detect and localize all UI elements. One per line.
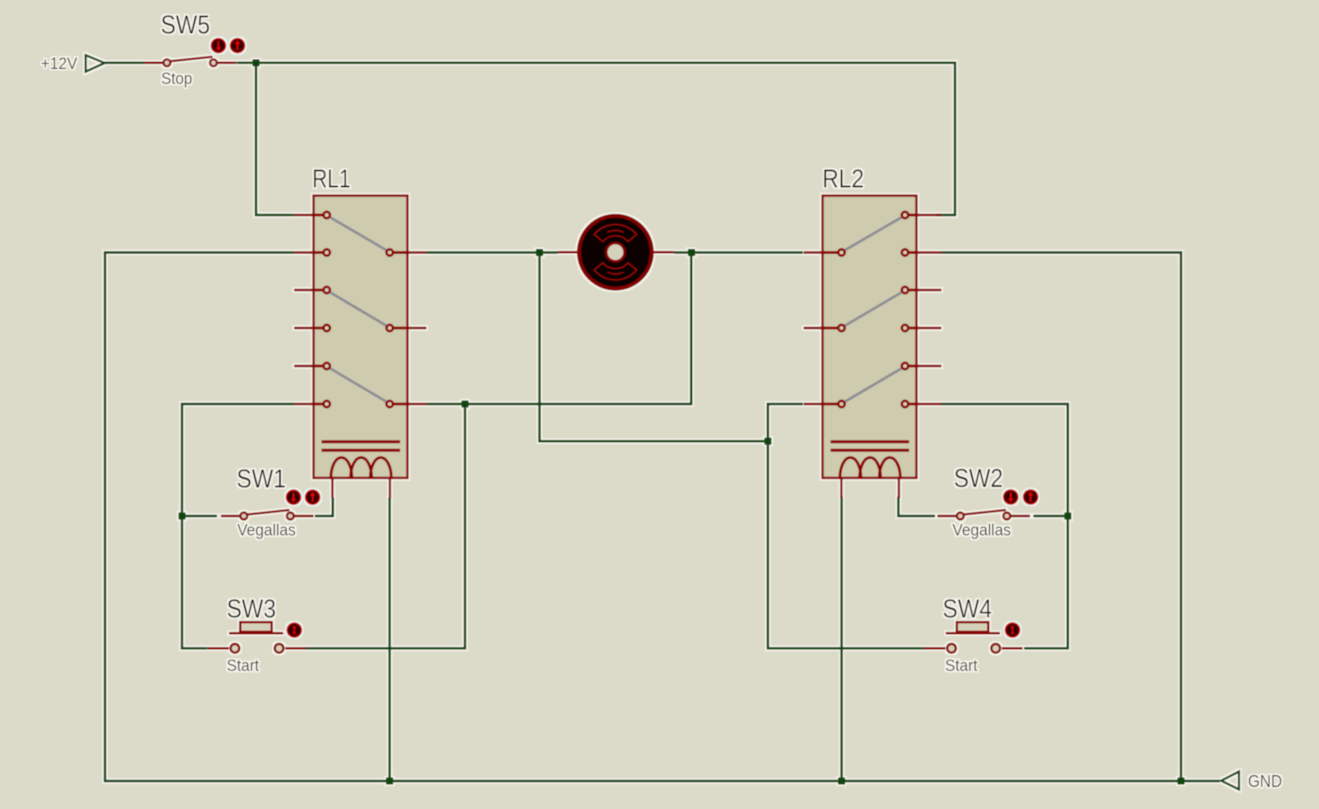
svg-text:GND: GND — [1248, 771, 1282, 791]
svg-text:SW1: SW1 — [237, 463, 286, 493]
svg-text:SW5: SW5 — [161, 10, 210, 40]
svg-text:Vegallas: Vegallas — [952, 522, 1011, 540]
svg-text:Start: Start — [945, 657, 978, 675]
svg-text:Vegallas: Vegallas — [237, 522, 296, 540]
svg-text:SW4: SW4 — [943, 594, 992, 624]
svg-text:Start: Start — [227, 657, 260, 675]
svg-text:RL1: RL1 — [312, 164, 350, 194]
svg-text:RL2: RL2 — [822, 164, 864, 194]
svg-text:+12V: +12V — [41, 54, 78, 73]
svg-text:SW3: SW3 — [227, 594, 276, 624]
svg-text:Stop: Stop — [161, 70, 192, 88]
svg-text:SW2: SW2 — [954, 463, 1003, 493]
